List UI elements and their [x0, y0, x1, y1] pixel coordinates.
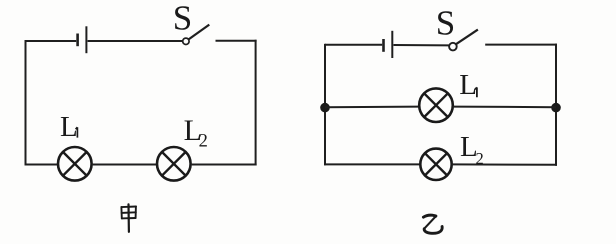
svg-text:S: S: [436, 4, 455, 43]
label S (left circuit switch): [173, 0, 192, 38]
label L2 (right circuit lamp): [460, 131, 484, 168]
wire: left circuit top middle segment (battery to switch): [88, 40, 183, 42]
svg-text:L: L: [459, 69, 477, 101]
battery (right circuit): long positive plate: [391, 31, 393, 58]
lamp L2 (left circuit): circle with cross: [157, 147, 191, 181]
wire: left circuit left vertical: [25, 40, 27, 166]
lamp L2 (right circuit): circle with cross: [420, 149, 451, 180]
label L1 (left circuit lamp): [60, 111, 78, 143]
node: left junction dot: [320, 103, 330, 113]
svg-text:S: S: [173, 0, 192, 38]
label L2 (left circuit lamp): [184, 114, 208, 151]
wire: bottom branch left segment: [324, 163, 421, 165]
node: right junction dot: [551, 103, 561, 113]
svg-text:2: 2: [199, 132, 208, 152]
wire: bottom branch right segment: [452, 163, 558, 165]
wire: left circuit right vertical: [255, 40, 257, 166]
battery (left circuit): long positive plate: [85, 26, 87, 53]
wire: right circuit left vertical: [324, 44, 326, 166]
battery (left circuit): short negative plate: [76, 34, 79, 47]
switch S (left circuit): open lever arm: [189, 25, 210, 40]
wire: right circuit top-right segment (after switch gap): [485, 44, 557, 46]
wire: middle branch right segment: [453, 106, 556, 109]
caption: Chinese character "jia" (figure 1 label): [121, 204, 136, 231]
switch S (right circuit): pivot circle: [449, 43, 457, 51]
svg-text:2: 2: [476, 149, 484, 168]
wire: left circuit bottom segment left of L1: [25, 164, 58, 166]
caption: Chinese character "yi" (figure 2 label): [423, 214, 442, 233]
switch S (right circuit): open lever arm: [456, 30, 478, 45]
wire: right circuit right vertical: [555, 44, 557, 166]
wire: right circuit top middle segment (battery to switch): [394, 44, 450, 46]
wire: left circuit bottom segment between L1 and L2: [93, 164, 156, 166]
label L1 (right circuit lamp): [459, 69, 477, 101]
lamp L1 (right circuit): circle with cross: [419, 88, 453, 122]
lamp L1 (left circuit): circle with cross: [58, 147, 92, 181]
wire: left circuit top-right segment (after switch gap): [216, 40, 257, 42]
wire: left circuit top-left segment: [26, 40, 77, 42]
label S (right circuit switch): [436, 4, 455, 43]
battery (right circuit): short negative plate: [382, 39, 385, 52]
wire: middle branch left segment: [325, 106, 419, 109]
svg-text:L: L: [60, 111, 78, 143]
wire: left circuit bottom segment right of L2: [192, 164, 257, 166]
wire: right circuit top-left segment: [325, 44, 382, 46]
switch S (left circuit): pivot circle: [183, 38, 189, 44]
